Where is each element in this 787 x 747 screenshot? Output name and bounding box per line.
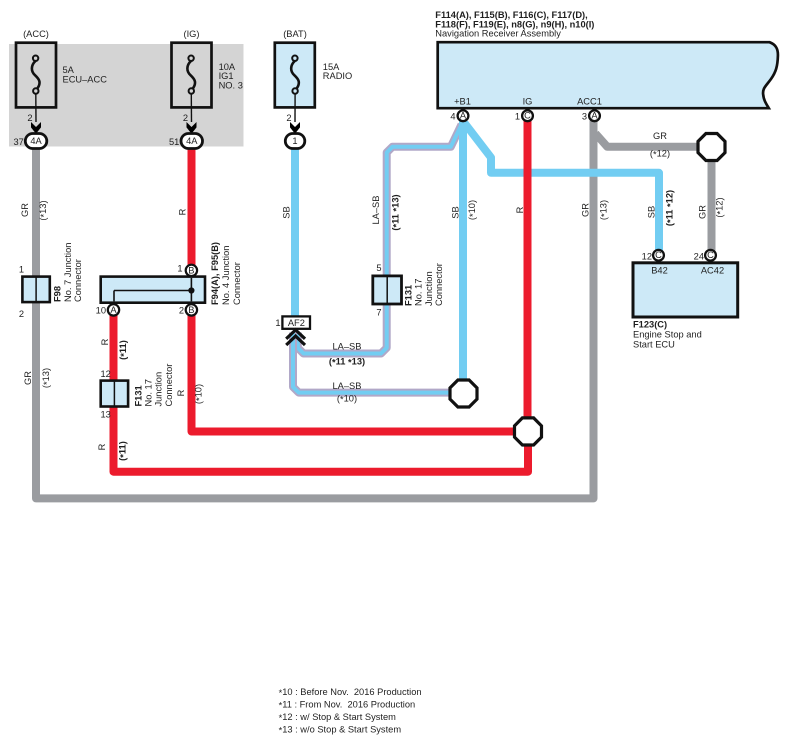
label GR (*13) right: [581, 200, 610, 220]
svg-text:(*11): (*11): [118, 340, 129, 360]
svg-text:*11 : From Nov. 2016 Producti: *11 : From Nov. 2016 Production: [279, 699, 416, 710]
svg-text:37: 37: [13, 137, 23, 147]
svg-text:(ACC): (ACC): [23, 29, 49, 39]
label LA-SB (*10) horizontal: [333, 381, 362, 405]
svg-text:12: 12: [100, 369, 110, 379]
svg-text:1: 1: [275, 318, 280, 328]
svg-text:LA–SB: LA–SB: [333, 381, 362, 391]
svg-text:F123(C): F123(C): [633, 319, 667, 329]
svg-text:12: 12: [642, 251, 652, 261]
svg-text:2: 2: [286, 113, 291, 123]
svg-text:SB: SB: [646, 206, 656, 218]
svg-text:B: B: [188, 265, 194, 275]
wire R from IG pin of nav assembly down to octagon: [524, 121, 532, 432]
svg-text:*13 : w/o Stop & Start System: *13 : w/o Stop & Start System: [279, 724, 402, 735]
pin 4 (A) of +B1: [458, 110, 469, 121]
label GR (*13) upper left: [20, 200, 49, 220]
svg-text:GR: GR: [697, 205, 707, 219]
svg-text:IG: IG: [523, 96, 533, 106]
svg-text:C: C: [707, 250, 714, 260]
label LA-SB (*11 *13) horizontal: [329, 341, 365, 367]
svg-text:B: B: [188, 305, 194, 315]
pin 24 (C): [705, 250, 716, 261]
svg-text:Engine Stop and: Engine Stop and: [633, 330, 702, 340]
svg-text:1: 1: [177, 264, 182, 274]
svg-text:(*10): (*10): [467, 200, 478, 220]
svg-text:No. 17: No. 17: [143, 379, 153, 406]
legend: [279, 687, 422, 736]
svg-text:AF2: AF2: [288, 318, 305, 328]
svg-text:(*13): (*13): [41, 368, 52, 388]
junction connector F131 No. 17 (12/13): [100, 364, 173, 420]
wire R from IG fuse to F94 pin 1B: [188, 146, 196, 266]
label R (*10): [176, 384, 205, 404]
pin 1 (B): [186, 265, 197, 276]
svg-text:5: 5: [376, 263, 381, 273]
svg-text:Navigation Receiver Assembly: Navigation Receiver Assembly: [435, 29, 561, 39]
svg-text:7: 7: [376, 307, 381, 317]
svg-text:4: 4: [450, 111, 455, 121]
svg-text:Connector: Connector: [73, 259, 83, 302]
svg-text:R: R: [178, 208, 188, 215]
svg-text:A: A: [110, 305, 117, 315]
svg-text:2: 2: [27, 113, 32, 123]
svg-text:Junction: Junction: [154, 372, 164, 407]
svg-text:Start ECU: Start ECU: [633, 340, 675, 350]
svg-text:4A: 4A: [186, 136, 198, 146]
svg-text:1: 1: [515, 111, 520, 121]
label R (*11) lower: [97, 441, 129, 461]
svg-text:A: A: [591, 111, 598, 121]
junction connector F98 No. 7: [19, 243, 83, 319]
svg-text:C: C: [524, 111, 531, 121]
svg-text:GR: GR: [20, 203, 30, 217]
svg-text:C: C: [655, 250, 662, 260]
ECU F123(C) Engine Stop and Start ECU: [633, 250, 738, 350]
svg-text:IG1: IG1: [219, 71, 234, 81]
svg-text:RADIO: RADIO: [323, 71, 352, 81]
svg-text:10: 10: [96, 305, 106, 315]
svg-text:(*11 *13): (*11 *13): [391, 194, 402, 230]
svg-text:SB: SB: [281, 206, 291, 218]
svg-text:AC42: AC42: [701, 266, 724, 276]
svg-text:1: 1: [19, 265, 24, 275]
label GR (*12) vertical: [697, 197, 725, 219]
pin 10 (A): [108, 304, 119, 315]
svg-text:SB: SB: [450, 206, 460, 218]
svg-text:24: 24: [694, 251, 704, 261]
octagon joint R: [515, 418, 542, 445]
svg-text:*10 : Before Nov. 2016 Produc: *10 : Before Nov. 2016 Production: [279, 687, 422, 698]
svg-text:R: R: [515, 206, 525, 213]
fuse BAT: [275, 29, 352, 148]
svg-text:4A: 4A: [30, 136, 42, 146]
svg-text:(*10): (*10): [193, 384, 204, 404]
chevron page link below AF2: [286, 330, 305, 345]
svg-text:A: A: [460, 111, 467, 121]
svg-text:GR: GR: [581, 203, 591, 217]
svg-text:F131: F131: [134, 385, 144, 406]
wire R (*11) from F94 pin A via F131 No.17 (12/13), bottom loop to octagon: [114, 316, 529, 472]
svg-text:No. 7 Junction: No. 7 Junction: [63, 243, 73, 302]
svg-text:+B1: +B1: [454, 96, 471, 106]
svg-text:(*12): (*12): [714, 197, 725, 217]
junction connector F94(A), F95(B) No. 4: [96, 242, 242, 316]
label R (*11) upper: [100, 338, 129, 359]
svg-text:F98: F98: [53, 286, 63, 302]
wire SB (*11 *12) branch from +B1 to F123 pin 12: [465, 123, 660, 251]
svg-text:F131: F131: [404, 285, 414, 306]
svg-text:NO. 3: NO. 3: [219, 81, 243, 91]
svg-text:(BAT): (BAT): [283, 29, 307, 39]
svg-text:LA–SB: LA–SB: [371, 196, 381, 225]
svg-text:51: 51: [169, 137, 179, 147]
svg-text:ECU–ACC: ECU–ACC: [63, 75, 108, 85]
svg-text:(*12): (*12): [650, 149, 670, 160]
svg-text:Connector: Connector: [434, 263, 444, 306]
svg-text:1: 1: [292, 136, 297, 146]
label GR (*13) lower left: [23, 368, 52, 388]
svg-text:*12 : w/ Stop & Start System: *12 : w/ Stop & Start System: [279, 712, 397, 723]
svg-text:GR: GR: [23, 371, 33, 385]
svg-text:Connector: Connector: [232, 262, 242, 305]
pin 1 (C) of IG: [522, 110, 533, 121]
svg-text:F114(A), F115(B), F116(C), F11: F114(A), F115(B), F116(C), F117(D),: [435, 10, 587, 20]
svg-text:2: 2: [183, 113, 188, 123]
svg-text:(*11 *13): (*11 *13): [329, 357, 365, 368]
svg-text:R: R: [97, 443, 107, 450]
fuse ACC: [13, 29, 107, 148]
svg-text:2: 2: [179, 305, 184, 315]
pin 12 (C): [653, 250, 664, 261]
label LA-SB (*11 *13) vertical: [371, 194, 402, 230]
wire LA-SB (*11 *13) from +B1 pin A via F131 No.17 (5/7) to AF2 chevron: [298, 125, 462, 354]
wire SB (*10) from +B1 pin A to octagon joint: [459, 121, 467, 392]
svg-text:R: R: [100, 338, 110, 345]
svg-text:B42: B42: [651, 266, 668, 276]
svg-text:(IG): (IG): [183, 29, 199, 39]
svg-text:R: R: [176, 389, 186, 396]
navigation receiver assembly F114(A)-n10(I): [435, 10, 778, 122]
octagon joint SB/LA-SB (*10): [450, 380, 477, 407]
junction connector F131 No. 17 (5/7): [373, 263, 444, 318]
svg-text:(*10): (*10): [337, 394, 357, 405]
svg-text:LA–SB: LA–SB: [333, 341, 362, 351]
svg-text:F94(A), F95(B): F94(A), F95(B): [210, 242, 220, 305]
svg-text:No. 17: No. 17: [414, 279, 424, 306]
fuse IG: [169, 29, 243, 148]
label GR (*12) horizontal: [650, 131, 670, 160]
svg-text:(*13): (*13): [599, 200, 610, 220]
svg-text:GR: GR: [653, 131, 667, 141]
junction dot inside F94: [188, 287, 194, 293]
svg-text:2: 2: [19, 309, 24, 319]
svg-text:ACC1: ACC1: [577, 96, 602, 106]
wire GR (*12) branch to octagon and down to pin 24: [596, 134, 712, 251]
svg-text:(*11 *12): (*11 *12): [664, 190, 675, 226]
wire SB from BAT fuse to AF2: [291, 146, 299, 317]
gray fuse-block background: [9, 44, 244, 147]
svg-text:(*13): (*13): [38, 200, 49, 220]
wire GR (*13) main loop: ACC fuse down, across bottom, up to ACC1: [36, 121, 594, 499]
pin 2 (B): [186, 304, 197, 315]
svg-text:No. 4 Junction: No. 4 Junction: [221, 246, 231, 305]
wire LA-SB (*10) from AF2 chevron to octagon joint: [293, 333, 464, 393]
svg-text:(*11): (*11): [117, 441, 128, 461]
connector AF2: [275, 316, 310, 328]
octagon joint GR (*12): [698, 134, 725, 161]
svg-text:Connector: Connector: [164, 364, 174, 407]
label SB (*11 *12): [646, 190, 675, 226]
svg-text:3: 3: [582, 111, 587, 121]
label SB (*10): [450, 200, 478, 220]
svg-text:5A: 5A: [63, 65, 75, 75]
svg-text:13: 13: [100, 410, 110, 420]
wire R (*10) from F94 pin 2B to octagon: [192, 316, 529, 432]
pin 3 (A) of ACC1: [589, 110, 600, 121]
svg-text:Junction: Junction: [424, 271, 434, 306]
